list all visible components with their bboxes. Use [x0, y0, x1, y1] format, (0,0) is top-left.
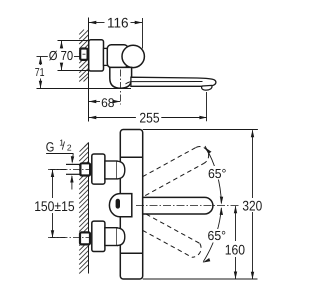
svg-text:68: 68	[101, 96, 114, 110]
dimension 116 (top view)	[89, 18, 143, 49]
upper 65 degree arc	[205, 146, 221, 203]
spout inner contour line (top view)	[126, 82, 203, 85]
svg-text:71: 71	[35, 67, 45, 79]
svg-text:G: G	[46, 139, 55, 154]
dimension Ø70 (top view)	[37, 41, 89, 71]
G 1/2 leader underline and arrow	[46, 153, 73, 155]
lower dashed spout extreme position	[143, 214, 201, 257]
arrow below pipe pointing up	[71, 176, 73, 190]
svg-text:255: 255	[139, 109, 159, 125]
wall face line (bottom view)	[88, 143, 90, 274]
upper arc arrowheads	[205, 147, 212, 154]
solid spout stadium (bottom view)	[143, 197, 213, 214]
svg-text:Ø 70: Ø 70	[49, 48, 73, 63]
aerator under spout tip (top view)	[202, 85, 212, 90]
faucet body column (bottom view)	[120, 130, 142, 280]
dimension 320	[252, 130, 254, 279]
G 1/2 thread label	[46, 137, 72, 154]
lower pipe centerline (bottom view)	[48, 237, 91, 239]
lower inlet nut (bottom view)	[80, 232, 90, 244]
wall hatch (top view)	[79, 30, 89, 82]
upper supply pipe (bottom view)	[66, 163, 81, 165]
spout tube with tip and aerator (top view)	[131, 77, 216, 86]
svg-text:116: 116	[107, 15, 129, 31]
nut center mark (top view)	[83, 53, 86, 55]
upper dashed spout extreme position	[143, 147, 209, 196]
top envelope extension line	[143, 129, 258, 131]
dimension 160	[235, 206, 237, 278]
svg-text:320: 320	[242, 197, 262, 213]
spout elbow (top view)	[110, 67, 132, 88]
inlet nut in wall (top view)	[80, 49, 87, 60]
dimension 71 (top view)	[37, 57, 132, 89]
upper pipe centerline (bottom view)	[48, 169, 91, 171]
svg-text:2: 2	[67, 143, 72, 153]
control knob circle (top view)	[122, 45, 144, 67]
upper union bulge (bottom view)	[117, 161, 125, 179]
lower 65 degree arc	[203, 208, 221, 262]
dimension 68 (top view)	[89, 101, 120, 103]
lower 65 text background	[207, 229, 228, 243]
svg-text:65°: 65°	[208, 228, 227, 243]
wall face line (top view)	[88, 18, 90, 122]
neck between escutcheon and body (top view)	[104, 48, 108, 65]
wall hatch (bottom view)	[79, 143, 89, 274]
svg-text:150±15: 150±15	[34, 198, 75, 214]
escutcheon (wall rose, top view)	[89, 40, 104, 71]
lower union escutcheon (bottom view)	[92, 221, 105, 251]
spout centerline (bottom view)	[136, 205, 241, 207]
svg-text:65°: 65°	[208, 166, 227, 181]
dimension 150±15	[50, 170, 66, 238]
dimension 255 (top view)	[89, 92, 207, 121]
elbow centerline (top view)	[120, 70, 122, 105]
svg-text:160: 160	[225, 241, 245, 257]
faucet body (top view)	[107, 45, 128, 68]
upper inlet nut (bottom view)	[80, 163, 90, 175]
body divider line top (bottom view)	[120, 156, 142, 158]
upper union escutcheon (bottom view)	[92, 154, 105, 184]
upper 65 text background	[207, 166, 228, 180]
control knob D-shape (bottom view)	[109, 194, 131, 217]
bottom envelope extension line	[143, 278, 258, 280]
upper union neck (bottom view)	[105, 161, 117, 179]
knob slot marker (bottom view)	[116, 199, 120, 209]
lower union neck (bottom view)	[105, 228, 117, 246]
lower union bulge (bottom view)	[117, 228, 125, 246]
lower arc arrowheads	[220, 207, 223, 215]
body divider line bottom (bottom view)	[120, 252, 142, 254]
